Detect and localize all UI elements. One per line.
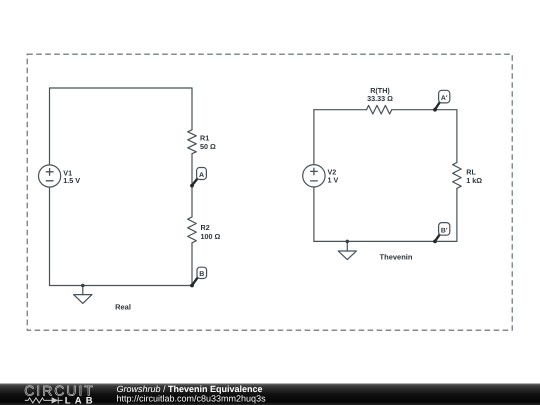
svg-text:A: A [199,172,204,179]
svg-text:1 kΩ: 1 kΩ [466,176,482,185]
svg-text:Thevenin: Thevenin [380,253,413,262]
svg-text:Real: Real [115,302,131,311]
svg-text:LAB: LAB [65,396,97,405]
svg-text:B′: B′ [441,227,448,234]
svg-text:100 Ω: 100 Ω [201,232,221,241]
svg-text:R2: R2 [201,223,210,232]
svg-text:1.5 V: 1.5 V [63,176,80,185]
svg-text:33.33 Ω: 33.33 Ω [367,94,393,103]
svg-text:B: B [199,271,204,278]
svg-text:1 V: 1 V [328,176,339,185]
svg-text:50 Ω: 50 Ω [200,142,216,151]
svg-text:http://circuitlab.com/c8u33mm2: http://circuitlab.com/c8u33mm2huq3s [117,394,267,404]
svg-text:A′: A′ [441,95,448,102]
